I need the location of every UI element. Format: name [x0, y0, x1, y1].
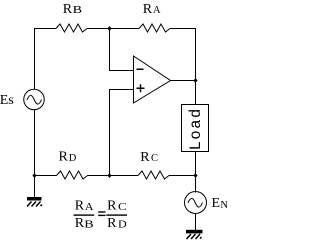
- svg-text:R: R: [107, 216, 117, 231]
- svg-text:Es: Es: [0, 93, 14, 108]
- resistor RA: [139, 24, 170, 32]
- wire Load bottom to node C: [195, 152, 197, 176]
- svg-text:Load: Load: [187, 107, 205, 150]
- svg-text:R: R: [75, 199, 85, 214]
- wire En bottom to ground: [195, 213, 197, 230]
- ground right hatching: [187, 234, 202, 239]
- op-amp minus sign: [137, 69, 144, 71]
- svg-text:B: B: [84, 218, 93, 230]
- svg-text:R: R: [63, 2, 73, 17]
- output node junction dot: [193, 78, 197, 83]
- op-amp U1 triangle: [134, 56, 171, 103]
- svg-text:A: A: [153, 5, 161, 16]
- wire top-left from Es up and right to RB: [35, 29, 57, 90]
- svg-text:B: B: [73, 4, 82, 16]
- wire RD to RC through node E: [88, 175, 139, 177]
- wire output node to Load top: [195, 81, 197, 105]
- svg-text:D: D: [69, 153, 77, 164]
- wire RC to node C: [169, 175, 196, 177]
- wire RB to RA through node A: [87, 28, 139, 30]
- wire op-amp output: [171, 80, 196, 82]
- svg-text:N: N: [220, 200, 228, 211]
- source Es circle: [24, 89, 45, 110]
- source Es sine: [27, 95, 42, 104]
- equation equals sign: [98, 211, 105, 216]
- source En sine: [188, 198, 203, 207]
- svg-text:C: C: [118, 200, 127, 212]
- ground left hatching: [27, 202, 42, 207]
- svg-text:R: R: [140, 150, 150, 165]
- node D junction dot: [32, 173, 36, 178]
- svg-text:E: E: [212, 196, 221, 211]
- svg-text:R: R: [143, 2, 153, 17]
- source En circle: [185, 192, 207, 214]
- op-amp plus sign: [137, 84, 145, 92]
- svg-text:R: R: [107, 199, 117, 214]
- wire RA to top-right corner down to output node: [170, 29, 196, 81]
- wire node D to RD: [35, 175, 57, 177]
- resistor RC: [138, 171, 169, 179]
- wire node D down to ground: [34, 176, 36, 198]
- svg-text:D: D: [118, 219, 127, 230]
- equation fraction bar 2: [106, 214, 127, 215]
- resistor RB: [56, 24, 87, 32]
- Load box: [182, 105, 209, 152]
- wire op-amp noninverting input left and down: [110, 90, 134, 176]
- equation fraction bar 1: [74, 214, 95, 215]
- resistor RD: [57, 171, 88, 179]
- wire node C down to En: [195, 176, 197, 193]
- node E junction dot: [107, 173, 111, 178]
- ground right bar: [186, 230, 203, 234]
- svg-text:R: R: [59, 150, 69, 165]
- wire Es bottom down to node D: [34, 110, 36, 176]
- node C junction dot: [193, 173, 197, 178]
- svg-text:C: C: [151, 153, 158, 164]
- svg-text:A: A: [85, 202, 95, 213]
- node A junction dot: [107, 26, 111, 31]
- svg-text:R: R: [75, 216, 85, 231]
- wire node A down to op-amp inverting input: [110, 29, 134, 71]
- ground left bar: [27, 197, 42, 201]
